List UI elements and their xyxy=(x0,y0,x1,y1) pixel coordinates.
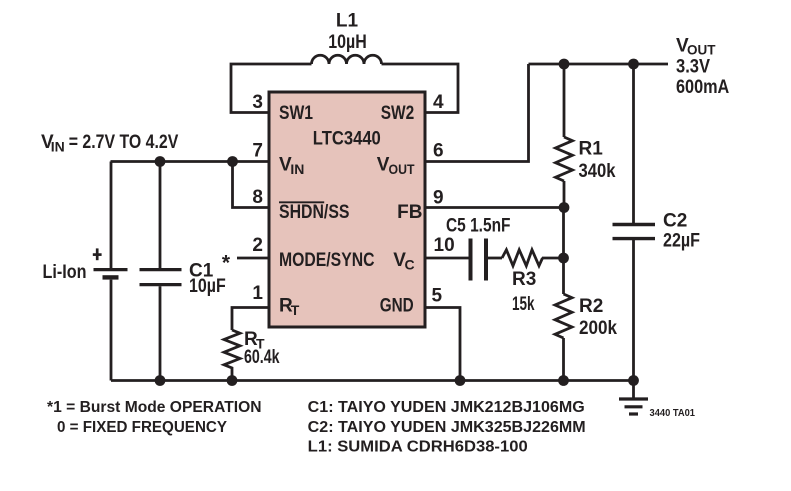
svg-text:IN: IN xyxy=(51,139,65,155)
junction dot FB / R1 / R2 xyxy=(559,202,570,213)
svg-text:7: 7 xyxy=(252,141,263,162)
junction dot VIN rail / pin 8 branch xyxy=(227,156,238,167)
junction dot bottom rail / R2 xyxy=(558,375,569,386)
svg-text:OUT: OUT xyxy=(389,161,415,177)
capacitor C2 xyxy=(613,64,656,381)
junction dot bottom rail / RT xyxy=(227,375,238,386)
junction dot VIN rail / C1 xyxy=(155,156,166,167)
resistor R1 xyxy=(556,64,573,208)
svg-text:OUT: OUT xyxy=(687,42,716,58)
svg-text:FB: FB xyxy=(397,202,422,223)
svg-text:0 = FIXED FREQUENCY: 0 = FIXED FREQUENCY xyxy=(57,419,227,436)
svg-text:6: 6 xyxy=(433,141,444,162)
svg-text:340k: 340k xyxy=(579,161,616,182)
svg-text:C2: C2 xyxy=(663,211,687,232)
svg-text:10µH: 10µH xyxy=(328,32,367,53)
IC pin name VC xyxy=(393,250,414,273)
svg-text:600mA: 600mA xyxy=(676,77,730,98)
IC pin name VIN xyxy=(279,155,304,178)
inductor L1 xyxy=(312,55,382,64)
resistor R2 xyxy=(555,208,572,381)
junction dot bottom rail / GND pin xyxy=(455,375,466,386)
junction dot VOUT rail / C2 xyxy=(628,59,639,70)
ground symbol xyxy=(619,381,648,415)
wire C5 to R3 xyxy=(488,257,502,260)
svg-text:C1: TAIYO YUDEN JMK212BJ106MG: C1: TAIYO YUDEN JMK212BJ106MG xyxy=(308,399,585,416)
wire pin 3 to L1 left loop xyxy=(231,64,312,113)
resistor RT xyxy=(224,330,240,381)
wire pin 2 stub xyxy=(237,257,268,260)
svg-text:SW1: SW1 xyxy=(279,103,313,124)
wire pin 1 to RT xyxy=(232,308,268,331)
svg-text:5: 5 xyxy=(432,286,443,307)
svg-text:*1 = Burst Mode OPERATION: *1 = Burst Mode OPERATION xyxy=(47,399,262,416)
junction dot bottom rail / C2 and ground xyxy=(628,375,639,386)
svg-text:C5 1.5nF: C5 1.5nF xyxy=(446,216,511,237)
capacitor C5 xyxy=(471,239,487,281)
junction dot R3 / R2 xyxy=(558,253,569,264)
wire pin 9 FB xyxy=(427,206,565,209)
wire pin 6 VOUT xyxy=(427,64,529,162)
svg-text:R1: R1 xyxy=(579,139,604,160)
svg-text:SW2: SW2 xyxy=(381,103,415,124)
svg-text:R3: R3 xyxy=(512,269,536,290)
svg-text:LTC3440: LTC3440 xyxy=(313,128,381,149)
svg-text:GND: GND xyxy=(380,296,414,317)
svg-text:3.3V: 3.3V xyxy=(676,56,710,77)
svg-text:200k: 200k xyxy=(579,318,617,339)
svg-text:2: 2 xyxy=(252,235,263,256)
svg-text:Li-Ion: Li-Ion xyxy=(43,262,87,283)
wire pin 10 VC stub xyxy=(427,257,469,260)
svg-text:T: T xyxy=(291,302,300,318)
svg-text:= 2.7V TO 4.2V: = 2.7V TO 4.2V xyxy=(69,132,179,153)
svg-text:8: 8 xyxy=(252,187,263,208)
svg-text:3: 3 xyxy=(252,92,263,113)
svg-text:SHDN/SS: SHDN/SS xyxy=(279,202,350,223)
svg-text:4: 4 xyxy=(433,92,444,113)
wire R3 to R2 node xyxy=(542,257,564,260)
node VIN rail wire xyxy=(111,160,268,163)
svg-text:22µF: 22µF xyxy=(663,231,700,252)
IC pin name SHDN/SS with overline xyxy=(279,202,350,223)
wire L1 right loop to pin 4 xyxy=(382,64,459,113)
node VOUT rail wire xyxy=(529,63,669,66)
battery BT1 Li-Ion xyxy=(94,162,128,381)
svg-text:60.4k: 60.4k xyxy=(244,347,280,368)
svg-text:1: 1 xyxy=(252,283,263,304)
svg-text:10: 10 xyxy=(434,235,455,256)
svg-text:C2: TAIYO YUDEN JMK325BJ226MM: C2: TAIYO YUDEN JMK325BJ226MM xyxy=(308,419,586,436)
svg-text:L1: L1 xyxy=(336,11,359,32)
wire pin 8 branch xyxy=(233,162,268,208)
battery plus sign xyxy=(93,248,102,260)
svg-text:10µF: 10µF xyxy=(189,276,226,297)
wire pin 5 GND xyxy=(427,308,461,381)
IC pin name VOUT xyxy=(377,155,415,178)
svg-text:L1: SUMIDA CDRH6D38-100: L1: SUMIDA CDRH6D38-100 xyxy=(308,439,528,456)
ground rail wire (bottom) xyxy=(111,379,634,382)
svg-text:15k: 15k xyxy=(512,294,535,315)
junction dot bottom rail / C1 xyxy=(155,375,166,386)
capacitor C1 xyxy=(140,162,182,381)
svg-text:C: C xyxy=(405,257,415,273)
svg-text:MODE/SYNC: MODE/SYNC xyxy=(279,250,375,271)
VOUT net label xyxy=(676,36,716,58)
resistor RT reference label xyxy=(244,329,265,352)
IC pin name RT xyxy=(279,296,300,319)
svg-text:R2: R2 xyxy=(579,296,603,317)
svg-text:IN: IN xyxy=(290,161,304,177)
svg-text:*: * xyxy=(222,252,231,275)
junction dot VOUT rail / R1 xyxy=(559,59,570,70)
svg-text:9: 9 xyxy=(433,188,444,209)
IC U1 LTC3440 body xyxy=(269,92,425,327)
svg-text:3440 TA01: 3440 TA01 xyxy=(650,407,696,419)
VIN net label xyxy=(41,132,179,155)
resistor R3 xyxy=(502,250,543,266)
